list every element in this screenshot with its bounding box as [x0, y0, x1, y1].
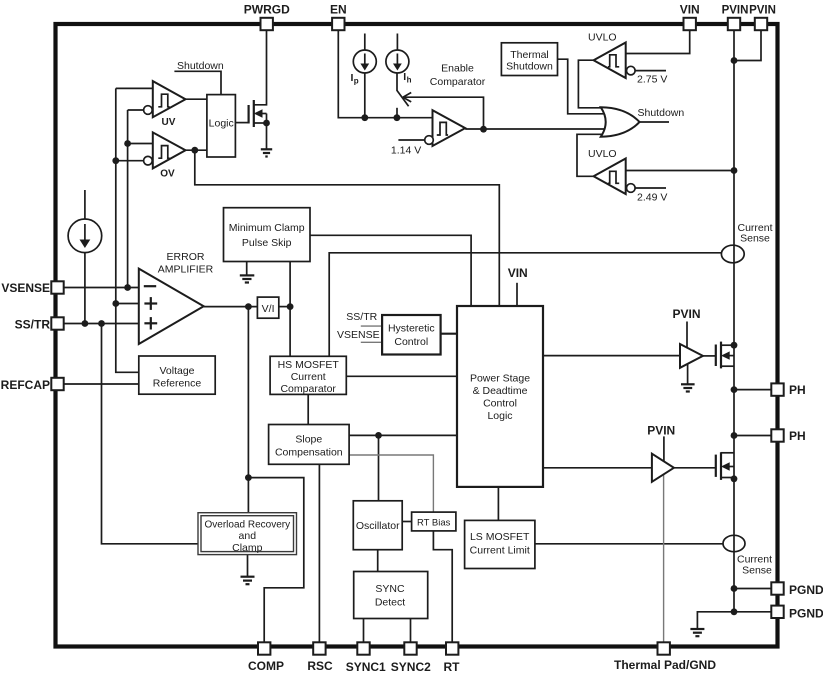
svg-text:Shutdown: Shutdown	[177, 60, 224, 72]
svg-text:ERROR: ERROR	[167, 251, 205, 263]
svg-text:2.75 V: 2.75 V	[637, 74, 667, 86]
svg-text:Sense: Sense	[742, 565, 772, 577]
svg-text:SYNC2: SYNC2	[391, 660, 431, 673]
svg-text:Sense: Sense	[740, 233, 770, 245]
svg-text:Control: Control	[394, 336, 428, 348]
svg-text:& Deadtime: & Deadtime	[473, 385, 528, 397]
svg-text:PH: PH	[789, 383, 806, 397]
svg-text:Detect: Detect	[375, 597, 405, 609]
svg-text:Power Stage: Power Stage	[470, 373, 530, 385]
svg-text:COMP: COMP	[248, 659, 284, 673]
svg-text:Minimum Clamp: Minimum Clamp	[229, 222, 305, 234]
svg-text:SYNC: SYNC	[375, 583, 405, 595]
svg-text:PVIN: PVIN	[672, 307, 700, 321]
svg-text:UVLO: UVLO	[588, 32, 617, 44]
svg-text:p: p	[354, 77, 359, 86]
svg-text:UV: UV	[162, 117, 176, 128]
svg-text:Pulse Skip: Pulse Skip	[242, 237, 292, 249]
svg-text:EN: EN	[330, 3, 347, 17]
svg-text:2.49 V: 2.49 V	[637, 192, 667, 204]
svg-text:PVIN: PVIN	[647, 424, 675, 438]
svg-text:VIN: VIN	[680, 3, 700, 17]
svg-text:PVIN: PVIN	[722, 5, 749, 17]
svg-text:Current Limit: Current Limit	[470, 545, 530, 557]
svg-text:Overload Recovery: Overload Recovery	[205, 520, 291, 531]
svg-text:REFCAP: REFCAP	[1, 378, 50, 392]
svg-text:V/I: V/I	[262, 303, 275, 315]
svg-text:PGND: PGND	[789, 583, 823, 597]
svg-text:RSC: RSC	[307, 659, 333, 673]
svg-text:VIN: VIN	[508, 266, 528, 280]
svg-text:SS/TR: SS/TR	[15, 318, 51, 332]
svg-text:SYNC1: SYNC1	[346, 660, 386, 673]
svg-text:Thermal Pad/GND: Thermal Pad/GND	[614, 658, 716, 672]
svg-text:Control: Control	[483, 398, 517, 410]
svg-text:Logic: Logic	[487, 410, 512, 422]
svg-text:PWRGD: PWRGD	[244, 3, 290, 17]
svg-text:OV: OV	[160, 169, 175, 180]
svg-text:Voltage: Voltage	[159, 365, 194, 377]
svg-text:VSENSE: VSENSE	[337, 329, 380, 341]
svg-text:PVIN: PVIN	[749, 5, 776, 17]
svg-text:Shutdown: Shutdown	[506, 61, 553, 73]
svg-text:PGND: PGND	[789, 607, 823, 621]
svg-text:Hysteretic: Hysteretic	[388, 323, 435, 335]
svg-text:Slope: Slope	[295, 434, 322, 446]
svg-text:HS MOSFET: HS MOSFET	[278, 359, 340, 371]
svg-text:RT Bias: RT Bias	[417, 518, 451, 529]
svg-text:LS MOSFET: LS MOSFET	[470, 531, 530, 543]
svg-text:Thermal: Thermal	[510, 49, 549, 61]
svg-text:Reference: Reference	[153, 378, 202, 390]
svg-text:Current: Current	[291, 371, 326, 383]
svg-text:UVLO: UVLO	[588, 148, 617, 160]
svg-text:Shutdown: Shutdown	[638, 107, 685, 119]
svg-text:RT: RT	[444, 660, 461, 673]
svg-text:VSENSE: VSENSE	[1, 281, 50, 295]
svg-text:Clamp: Clamp	[232, 542, 263, 554]
svg-text:1.14 V: 1.14 V	[391, 145, 421, 157]
svg-text:SS/TR: SS/TR	[346, 311, 377, 323]
svg-text:Oscillator: Oscillator	[356, 520, 400, 532]
svg-text:Comparator: Comparator	[430, 76, 486, 88]
svg-text:Compensation: Compensation	[275, 447, 343, 459]
svg-text:h: h	[407, 76, 412, 85]
svg-text:Enable: Enable	[441, 63, 474, 75]
svg-text:AMPLIFIER: AMPLIFIER	[158, 264, 214, 276]
svg-text:PH: PH	[789, 429, 806, 443]
svg-text:Comparator: Comparator	[280, 383, 336, 395]
svg-text:Logic: Logic	[209, 118, 234, 130]
svg-text:and: and	[239, 530, 257, 542]
